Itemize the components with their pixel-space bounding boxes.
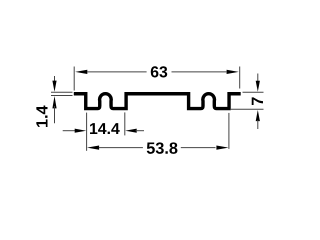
dim 14.4: right arrow (points left) [125, 129, 137, 133]
dim 63: arrow right [227, 70, 239, 74]
dim 1.4: lower dim line tail [54, 106, 56, 123]
dim 1.4: extension line bottom [51, 95, 73, 97]
dim 53.8: line right segment [181, 147, 216, 149]
dim 63: label [151, 66, 167, 77]
dim 63: arrow left [75, 70, 87, 74]
dim 1.4: lower arrow (points up) [52, 96, 56, 108]
dim 53.8: line left segment [99, 147, 143, 149]
dim 1.4: upper arrow (points down) [52, 81, 56, 92]
dim 7: label (rotated) [252, 97, 263, 105]
dim 7: lower arrow (points up) [256, 110, 260, 121]
dim 63: line left segment [87, 71, 147, 73]
dim 14.4: extension line left (shared with 53.8) [86, 113, 88, 151]
dim 7: lower dim line tail [257, 120, 259, 129]
dim 14.4: right tail [136, 130, 145, 132]
dim 63: line right segment [172, 71, 228, 73]
dim 63: extension line right [239, 67, 241, 89]
dim 7: extension line top [243, 91, 264, 93]
dim 7: extension line bottom [231, 108, 264, 110]
dim 14.4: extension line right [124, 112, 126, 135]
dim 53.8: right arrow (points right) [216, 146, 228, 150]
dim 63: extension line left [73, 67, 75, 91]
dim 53.8: label [147, 142, 178, 154]
dim 14.4: left tail [63, 130, 76, 132]
dim 1.4: extension line top [51, 91, 73, 93]
dim 14.4: label [90, 123, 120, 134]
dim 1.4: upper dim line tail [54, 76, 56, 82]
dim 7: upper arrow (points down) [256, 81, 260, 92]
dim 7: upper dim line tail [257, 74, 259, 86]
dim 14.4: left arrow (points right) [75, 129, 87, 133]
dim 53.8: left arrow (points left) [87, 146, 99, 150]
dim 1.4: label (rotated) [36, 106, 47, 127]
dim 53.8: extension line right [228, 113, 230, 149]
profile cross-section outline [74, 94, 241, 109]
